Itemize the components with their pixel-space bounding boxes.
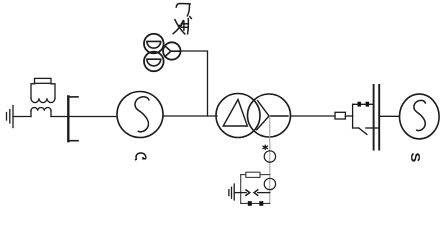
- svg-text:S: S: [408, 152, 422, 162]
